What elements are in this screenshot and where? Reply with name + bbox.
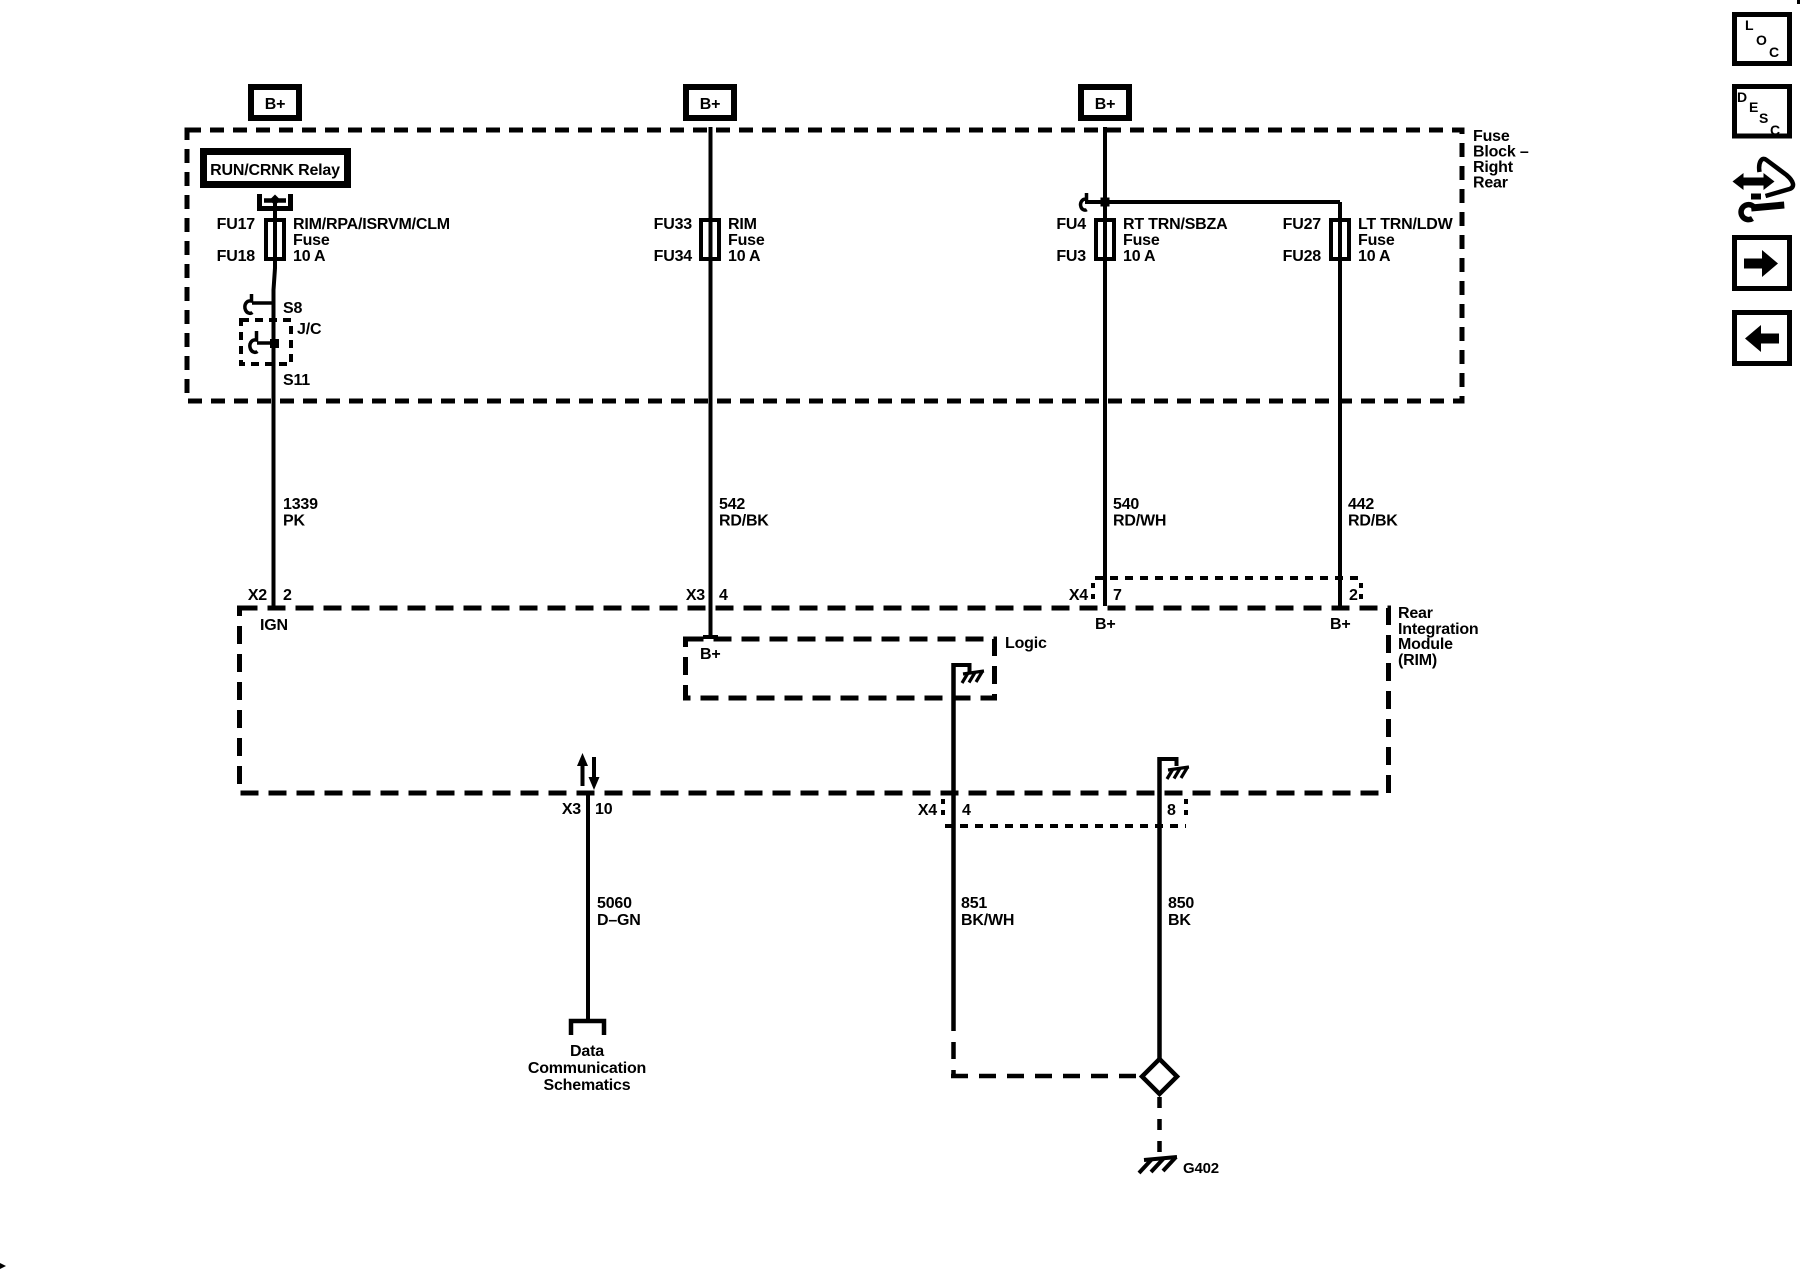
svg-text:FU28: FU28 [1283, 248, 1322, 265]
svg-text:Fuse: Fuse [1473, 128, 1510, 145]
fuse block dashed box (Fuse Block - Right Rear) [187, 130, 1462, 401]
ground G402 [1139, 1157, 1219, 1177]
svg-text:850: 850 [1168, 895, 1194, 912]
svg-text:2: 2 [1349, 587, 1358, 604]
svg-text:X4: X4 [918, 802, 937, 819]
serial data symbol (up/down arrows) [577, 753, 600, 790]
svg-text:X4: X4 [1069, 587, 1088, 604]
wire: logic ground down to X4-4 (becomes 851 BK/WH) [951, 663, 956, 1014]
svg-text:1339: 1339 [283, 496, 318, 513]
svg-text:X3: X3 [562, 801, 581, 818]
continuation curl at left of branch wire [1081, 193, 1087, 210]
back arrow nav box [1735, 313, 1790, 364]
splice S11 inside J/C [250, 331, 310, 389]
svg-text:S8: S8 [283, 300, 302, 317]
junction block J/C dashed box [241, 320, 291, 364]
svg-text:C: C [1770, 122, 1780, 138]
svg-text:10: 10 [595, 801, 613, 818]
svg-text:Fuse: Fuse [728, 232, 765, 249]
data communication schematics off-page bracket [571, 1021, 604, 1035]
wire 850 BK label [1168, 895, 1194, 929]
svg-text:FU3: FU3 [1056, 248, 1086, 265]
svg-text:RIM: RIM [728, 216, 757, 233]
svg-text:RUN/CRNK Relay: RUN/CRNK Relay [210, 162, 340, 179]
svg-text:Fuse: Fuse [1123, 232, 1160, 249]
svg-text:G402: G402 [1183, 1160, 1219, 1177]
RIM label [1398, 605, 1478, 669]
svg-text:D–GN: D–GN [597, 912, 641, 929]
svg-text:FU4: FU4 [1056, 216, 1086, 233]
splice S8 [245, 294, 303, 317]
svg-text:C: C [1769, 44, 1779, 60]
svg-text:L: L [1745, 17, 1754, 33]
svg-text:542: 542 [719, 496, 745, 513]
svg-text:8: 8 [1167, 802, 1176, 819]
svg-text:IGN: IGN [260, 617, 288, 634]
B+ terminal 3 [1081, 87, 1129, 118]
svg-text:B+: B+ [1330, 616, 1351, 633]
svg-text:FU17: FU17 [217, 216, 256, 233]
svg-text:Module: Module [1398, 636, 1453, 653]
splice diamond [1142, 1059, 1177, 1094]
svg-text:X2: X2 [248, 587, 267, 604]
svg-text:Data: Data [570, 1043, 604, 1060]
wire: B+ 2 to fuse FU33 [709, 127, 713, 261]
svg-text:S: S [1759, 110, 1768, 126]
svg-text:RIM/RPA/ISRVM/CLM: RIM/RPA/ISRVM/CLM [293, 216, 450, 233]
svg-text:4: 4 [719, 587, 728, 604]
wire 1339 PK label [283, 496, 318, 530]
svg-text:(RIM): (RIM) [1398, 652, 1437, 669]
wire: B+/relay to fuse FU17 [273, 200, 277, 261]
wire 5060 D-GN: X3-10 down to data comm [586, 793, 590, 1019]
relay contact symbol [260, 194, 291, 209]
harness routing tool icon [1733, 159, 1794, 220]
svg-text:Logic: Logic [1005, 635, 1047, 652]
svg-text:Schematics: Schematics [544, 1077, 631, 1094]
svg-text:Rear: Rear [1473, 175, 1508, 192]
wire 442 RD/BK: FU28 down to RIM pin 2 [1338, 261, 1342, 606]
fuse block label [1473, 128, 1529, 192]
connector X4 dotted box pins 4 and 8 [918, 799, 1186, 826]
ground symbol for pin 8 wire [1160, 759, 1190, 779]
svg-text:851: 851 [961, 895, 987, 912]
svg-text:10 A: 10 A [1123, 248, 1156, 265]
fuse FU33/FU34 (RIM Fuse 10 A) [701, 220, 719, 259]
svg-text:4: 4 [962, 802, 971, 819]
svg-text:5060: 5060 [597, 895, 632, 912]
junction dot [1101, 198, 1110, 207]
RIM module dashed box [240, 608, 1389, 793]
forward arrow nav box [1735, 238, 1790, 289]
svg-text:LT TRN/LDW: LT TRN/LDW [1358, 216, 1454, 233]
svg-text:RT TRN/SBZA: RT TRN/SBZA [1123, 216, 1228, 233]
svg-text:FU34: FU34 [654, 248, 693, 265]
svg-text:540: 540 [1113, 496, 1139, 513]
B+ terminal 2 [686, 87, 734, 118]
svg-text:7: 7 [1113, 587, 1122, 604]
wire 851 BK/WH label [961, 895, 1014, 929]
svg-text:O: O [1756, 32, 1767, 48]
ground symbol inside logic box [954, 665, 985, 683]
svg-text:J/C: J/C [297, 321, 322, 338]
svg-text:FU27: FU27 [1283, 216, 1322, 233]
wire 850 BK: ground down through pin 8 to splice diamond [1157, 757, 1162, 1060]
svg-text:E: E [1749, 99, 1758, 115]
svg-text:Rear: Rear [1398, 605, 1433, 622]
logic dashed box [686, 639, 995, 698]
svg-text:B+: B+ [265, 96, 286, 113]
svg-text:PK: PK [283, 513, 305, 530]
wire: branch down to fuse FU27 [1338, 202, 1342, 261]
page corner artifact top right [1797, 0, 1800, 4]
svg-text:B+: B+ [700, 96, 721, 113]
svg-text:Fuse: Fuse [1358, 232, 1395, 249]
svg-text:BK: BK [1168, 912, 1191, 929]
svg-text:FU33: FU33 [654, 216, 693, 233]
wire: 851 dashed continuation to splice [951, 1014, 956, 1076]
page corner artifact bottom left [0, 1263, 6, 1269]
fuse FU17/FU18 (RIM/RPA/ISRVM/CLM Fuse 10 A) [266, 220, 284, 259]
wire 542 RD/BK: fuse FU34 down to logic box [709, 261, 713, 637]
connector pin X3-4 [686, 587, 728, 604]
svg-text:RD/BK: RD/BK [1348, 513, 1398, 530]
svg-text:Block –: Block – [1473, 144, 1529, 161]
svg-text:Fuse: Fuse [293, 232, 330, 249]
DESC nav box [1735, 87, 1790, 139]
svg-text:B+: B+ [700, 646, 721, 663]
svg-text:X3: X3 [686, 587, 705, 604]
fuse FU27/FU28 (LT TRN/LDW Fuse 10 A) [1331, 220, 1349, 259]
svg-text:S11: S11 [283, 372, 310, 389]
svg-text:10 A: 10 A [728, 248, 761, 265]
svg-text:B+: B+ [1095, 616, 1116, 633]
RUN/CRNK Relay box [204, 152, 348, 185]
B+ terminal 1 [251, 87, 299, 118]
LOC nav box [1735, 15, 1790, 64]
svg-text:RD/BK: RD/BK [719, 513, 769, 530]
wire: B+ 3 down through junction to fuse FU4 [1103, 127, 1107, 261]
connector X4 dotted box pins 7 and 2 [1069, 578, 1361, 604]
svg-text:BK/WH: BK/WH [961, 912, 1014, 929]
connector pin X3-10 [562, 801, 613, 818]
fuse FU4/FU3 (RT TRN/SBZA Fuse 10 A) [1096, 220, 1114, 259]
horizontal wire to FU27 branch [1085, 200, 1340, 204]
wire 540 RD/WH: FU3 down to RIM X4-7 [1103, 261, 1107, 606]
svg-text:2: 2 [283, 587, 292, 604]
svg-text:Right: Right [1473, 159, 1514, 176]
svg-text:RD/WH: RD/WH [1113, 513, 1166, 530]
connector pin X2-2 (IGN) [248, 587, 292, 634]
svg-text:10 A: 10 A [293, 248, 326, 265]
svg-text:B+: B+ [1095, 96, 1116, 113]
svg-text:442: 442 [1348, 496, 1374, 513]
svg-text:Communication: Communication [528, 1060, 646, 1077]
svg-text:FU18: FU18 [217, 248, 256, 265]
dashed wire: diamond to ground G402 [1157, 1097, 1162, 1157]
svg-text:D: D [1737, 89, 1747, 105]
wire: fuse FU18 down to RIM X2-2 [274, 261, 276, 606]
svg-text:10 A: 10 A [1358, 248, 1391, 265]
